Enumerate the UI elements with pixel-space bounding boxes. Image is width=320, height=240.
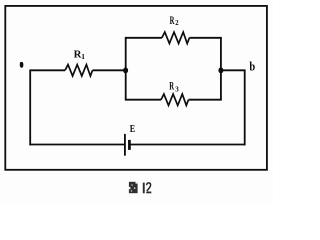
wire top branch left segment	[125, 37, 162, 39]
caption figure label 图12	[129, 182, 152, 194]
node b	[249, 59, 255, 74]
svg-text:R: R	[169, 79, 174, 93]
svg-text:3: 3	[175, 85, 179, 94]
svg-text:b: b	[249, 59, 255, 74]
svg-text:E: E	[130, 124, 135, 135]
wire right vertical branch riser	[220, 38, 222, 100]
battery E	[125, 124, 135, 156]
wire bottom right segment	[129, 144, 245, 146]
svg-text:R: R	[170, 13, 175, 27]
wire bottom branch right segment	[189, 99, 222, 101]
wire top branch right segment	[189, 37, 221, 39]
wire a to R1	[30, 69, 65, 71]
svg-text:2: 2	[175, 18, 179, 27]
wire left vertical branch riser	[125, 38, 127, 100]
wire right junction to b corner	[221, 69, 246, 71]
resistor R2	[162, 13, 190, 43]
wire left vertical from a corner	[29, 70, 31, 146]
svg-text:1: 1	[81, 52, 85, 61]
resistor R1	[65, 48, 92, 76]
wire right vertical down from b corner	[244, 70, 246, 146]
wire R1 to left junction	[93, 69, 126, 71]
resistor R3	[161, 79, 189, 106]
node junction right	[218, 67, 223, 73]
node a	[20, 62, 24, 68]
node junction left	[123, 67, 128, 73]
wire bottom branch left segment	[125, 99, 161, 101]
wire bottom left segment	[29, 144, 125, 146]
